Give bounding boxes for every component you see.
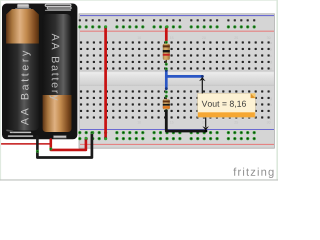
- R1 band red: [163, 54, 170, 56]
- wire: black battery lead to bottom power rail: [37, 133, 92, 158]
- battery cell 1 copper top section: [6, 9, 39, 44]
- dark cap top: [165, 26, 168, 29]
- battery cell 2 label: [50, 34, 60, 101]
- svg-text:i: i: [270, 109, 271, 113]
- svg-text:d: d: [270, 60, 272, 64]
- svg-text:b: b: [270, 47, 272, 51]
- breadboard: [79, 14, 274, 148]
- node: R1 top: [165, 41, 168, 44]
- breadboard main tie-point holes: [80, 41, 270, 119]
- breadboard bottom blue bus line: [80, 129, 274, 131]
- svg-text:j: j: [269, 116, 271, 120]
- wire: blue vertical across channel: [165, 70, 168, 89]
- svg-text:g: g: [270, 96, 272, 100]
- junction: red lead / red wire: [49, 147, 52, 150]
- node: jumper top in rail hole: [104, 26, 107, 29]
- fritzing watermark: [233, 168, 273, 178]
- battery holder top contact (cell 2 spring, side view): [45, 4, 71, 10]
- battery cell 1 dark body: [6, 44, 40, 131]
- battery cell 2 (AA, + down) dark body: [42, 14, 71, 95]
- page frame edges: [0, 0, 278, 2]
- wire: black from R2 to measurement point: [166, 111, 206, 131]
- node: blue vertical top: [165, 67, 168, 70]
- battery holder bottom contact (cell 2 plate): [54, 136, 67, 139]
- cap: blue tap free end: [201, 75, 204, 78]
- node: R1 bottom: [165, 63, 168, 66]
- svg-text:e: e: [270, 67, 272, 71]
- arrow: note to Vout tap (up): [201, 80, 203, 93]
- breadboard column number labels: [106, 36, 271, 125]
- breadboard top red bus line: [80, 30, 274, 32]
- top power rail holes (row 2, powered green): [78, 25, 256, 28]
- bottom power rail holes (row 2, powered green): [78, 137, 256, 140]
- top power rail holes (row 1, unpowered): [79, 19, 256, 22]
- breadboard center channel: [80, 71, 274, 86]
- battery cell 1 (AA, + up) positive button: [17, 4, 29, 9]
- battery holder BT1 case: [2, 4, 77, 140]
- battery cell 2 copper bottom section: [43, 95, 72, 132]
- svg-text:h: h: [270, 103, 272, 107]
- dark caps on long red jumper: [104, 26, 107, 29]
- battery red lead stub (under holder, cropped at image edge): [0, 143, 51, 145]
- node: R2 bottom: [165, 109, 168, 112]
- junction: black lead / black wire: [36, 150, 39, 153]
- R2 band orange: [163, 106, 170, 108]
- battery cell 1 button base: [15, 8, 31, 10]
- node: red wire into rail hole: [85, 137, 88, 140]
- svg-text:20: 20: [202, 36, 206, 40]
- node: red wire top in rail hole: [165, 26, 168, 29]
- wire: red battery lead to bottom power rail: [51, 139, 86, 150]
- breadboard row letter labels: [269, 41, 272, 120]
- svg-text:30: 30: [267, 121, 271, 125]
- resistor R2 (10k) leads: [165, 96, 167, 110]
- breadboard bottom red bus line: [80, 143, 274, 145]
- node: R2 top: [165, 95, 168, 98]
- svg-text:25: 25: [234, 121, 238, 125]
- arrow: note to ground wire (down): [205, 117, 207, 127]
- R1 band brown: [163, 45, 170, 47]
- battery red lead stub exit: [49, 140, 52, 149]
- svg-text:10: 10: [137, 121, 141, 125]
- note: Vout = 8,16: [198, 93, 256, 117]
- resistor R2 body: [163, 99, 170, 109]
- svg-text:15: 15: [170, 121, 174, 125]
- node: jumper bottom in rail hole: [104, 137, 107, 140]
- page background: [0, 0, 278, 181]
- svg-text:15: 15: [170, 36, 174, 40]
- wire: blue Vout tap: [166, 75, 202, 78]
- svg-text:30: 30: [267, 36, 271, 40]
- battery black lead stub: [36, 137, 39, 152]
- resistor R1 body: [163, 44, 170, 60]
- bottom power rail holes (row 1, powered green): [78, 131, 256, 134]
- cap: black wire free end: [205, 130, 208, 133]
- node: blue vertical bottom: [165, 91, 168, 94]
- wire: red from top rail to resistor R1: [165, 27, 168, 40]
- battery holder bottom contact (cell 1 zigzag spring): [9, 132, 33, 136]
- svg-text:c: c: [270, 54, 272, 58]
- breadboard top blue bus line: [80, 15, 274, 17]
- dark caps on blue vertical: [165, 69, 168, 72]
- R1 band black: [163, 50, 170, 52]
- svg-text:25: 25: [234, 36, 238, 40]
- wire: long red jumper, top rail to bottom rail: [104, 27, 107, 138]
- dark cap on red wire at rail hole: [85, 138, 88, 141]
- resistor R1 (1k) leads: [165, 42, 167, 65]
- svg-text:10: 10: [137, 36, 141, 40]
- R2 band brown: [163, 101, 170, 103]
- R2 band black: [163, 104, 170, 106]
- battery cell 1 label: [21, 51, 31, 126]
- node: black wire into rail hole: [90, 131, 93, 134]
